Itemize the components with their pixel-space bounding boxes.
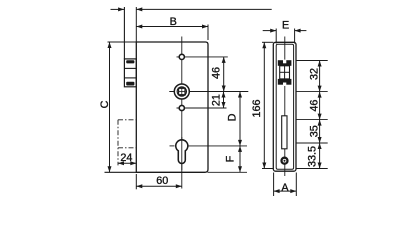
svg-text:46: 46 (308, 100, 320, 112)
svg-text:F: F (225, 155, 237, 162)
svg-text:33.5: 33.5 (306, 146, 318, 167)
svg-text:E: E (282, 19, 289, 31)
svg-text:B: B (170, 16, 177, 28)
svg-text:32: 32 (308, 68, 320, 80)
svg-text:C: C (99, 100, 111, 108)
svg-text:D: D (227, 113, 239, 121)
svg-text:166: 166 (251, 99, 263, 117)
svg-text:60: 60 (156, 175, 168, 187)
svg-text:35: 35 (308, 125, 320, 137)
svg-text:46: 46 (211, 67, 223, 79)
svg-text:21: 21 (210, 94, 222, 106)
svg-text:A: A (281, 182, 289, 194)
svg-text:24: 24 (120, 152, 132, 164)
